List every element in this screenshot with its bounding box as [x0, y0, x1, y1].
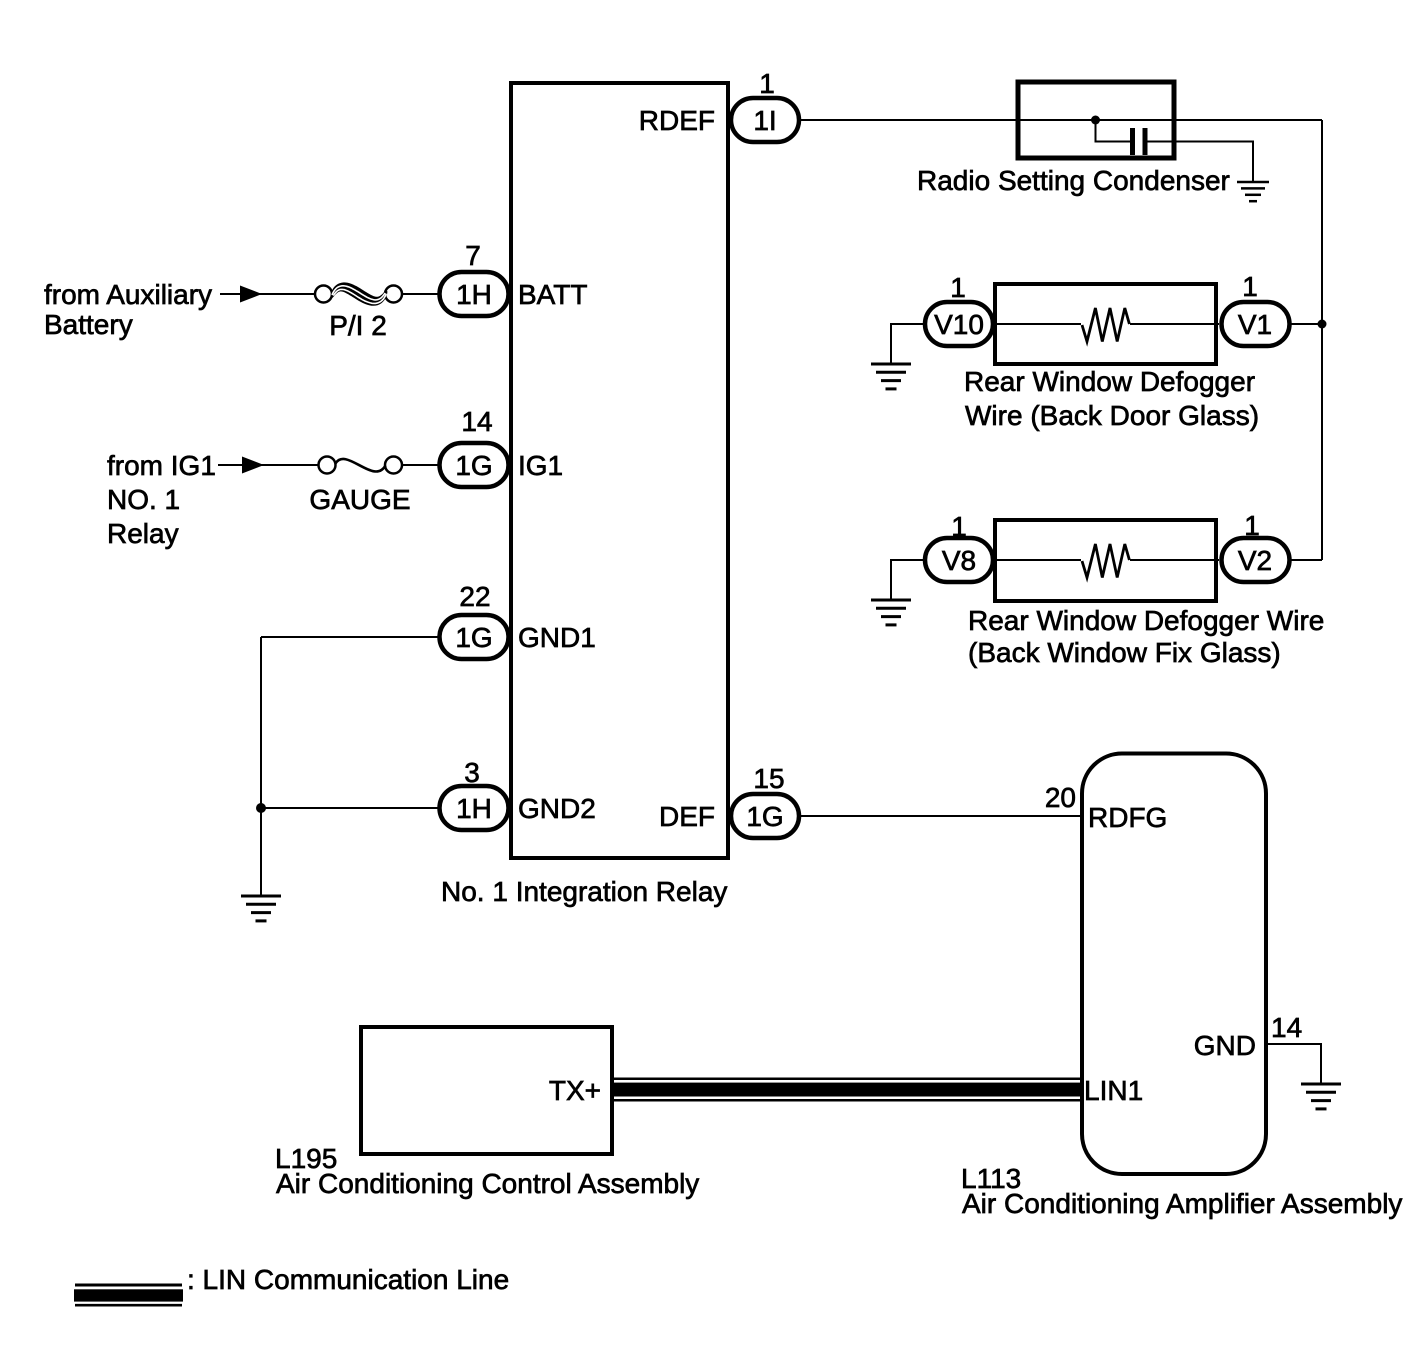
- svg-text:V2: V2: [1238, 545, 1272, 576]
- svg-text:1H: 1H: [456, 279, 492, 310]
- amplifier U2 box (A/C Amplifier Assembly): [1082, 754, 1266, 1175]
- svg-text:22: 22: [459, 581, 490, 612]
- svg-text:Battery: Battery: [44, 309, 133, 340]
- arrow BATT feed: [240, 286, 262, 303]
- connector 1H (BATT): [440, 272, 509, 316]
- svg-text:1: 1: [950, 272, 966, 303]
- svg-text:TX+: TX+: [549, 1075, 601, 1106]
- svg-text:BATT: BATT: [518, 279, 587, 310]
- defogger wire 1 box: [995, 284, 1216, 364]
- capacitor C1 plates: [1130, 128, 1135, 155]
- connector V10: [925, 302, 993, 346]
- connector 1G (GND1): [440, 615, 509, 659]
- svg-text:1I: 1I: [753, 105, 776, 136]
- svg-text:from IG1: from IG1: [107, 450, 216, 481]
- ground G2 (condenser): [1237, 182, 1269, 201]
- svg-text:14: 14: [1271, 1012, 1302, 1043]
- svg-text:NO. 1: NO. 1: [107, 484, 180, 515]
- wire capacitor to ground: [1148, 142, 1254, 182]
- ground G1: [241, 896, 281, 921]
- legend LIN symbol: [74, 1285, 183, 1305]
- junction GND2: [256, 803, 266, 813]
- svg-text:GND: GND: [1194, 1030, 1256, 1061]
- wire DEF to amplifier: [801, 815, 1082, 817]
- svg-text:3: 3: [464, 757, 480, 788]
- svg-text:Rear Window Defogger: Rear Window Defogger: [964, 366, 1255, 397]
- wire V1 to bus: [1292, 323, 1323, 325]
- svg-text:IG1: IG1: [518, 450, 563, 481]
- svg-text:Wire (Back Door Glass): Wire (Back Door Glass): [965, 400, 1259, 431]
- connector V2: [1222, 538, 1290, 582]
- svg-text:: LIN Communication Line: : LIN Communication Line: [187, 1264, 509, 1295]
- svg-text:1G: 1G: [455, 622, 492, 653]
- relay U1 No.1 Integration Relay box: [511, 83, 728, 858]
- svg-text:1: 1: [759, 68, 775, 99]
- resistor R1 (defogger element): [1082, 308, 1129, 342]
- defogger wire 2 box: [995, 520, 1216, 601]
- junction in condenser: [1091, 116, 1100, 125]
- resistor R2 (defogger element): [1082, 544, 1129, 578]
- wire condenser tap: [1096, 120, 1131, 142]
- wire through defogger 1: [995, 323, 1081, 325]
- junction V1 bus: [1318, 320, 1327, 329]
- connector 1H (GND2): [440, 786, 509, 830]
- wire right bus vertical: [1321, 120, 1323, 560]
- control box U3 (A/C Control Assembly): [361, 1027, 612, 1154]
- arrow IG1 feed: [242, 457, 264, 474]
- svg-text:Radio Setting Condenser: Radio Setting Condenser: [917, 165, 1230, 196]
- svg-text:GND2: GND2: [518, 793, 596, 824]
- wire GND to ground: [1266, 1044, 1321, 1083]
- wire V2 to bus: [1292, 559, 1323, 561]
- wire GND2: [261, 807, 438, 809]
- svg-text:(Back Window Fix Glass): (Back Window Fix Glass): [968, 637, 1281, 668]
- svg-text:1G: 1G: [455, 450, 492, 481]
- wire GND1: [261, 636, 438, 638]
- svg-text:Rear Window Defogger Wire: Rear Window Defogger Wire: [968, 605, 1324, 636]
- svg-text:Relay: Relay: [107, 518, 179, 549]
- svg-text:DEF: DEF: [659, 801, 715, 832]
- connector 1G (DEF): [731, 794, 799, 838]
- svg-text:1H: 1H: [456, 793, 492, 824]
- fusible link P/I 2: [315, 282, 402, 341]
- wire fuse to 1H: [402, 293, 438, 295]
- wire V8 to ground: [891, 560, 923, 599]
- svg-text:V8: V8: [942, 545, 976, 576]
- svg-text:RDEF: RDEF: [639, 105, 715, 136]
- wire LIN communication line: [613, 1079, 1082, 1101]
- svg-text:1G: 1G: [746, 801, 783, 832]
- radio setting condenser box: [1018, 82, 1174, 158]
- svg-text:from Auxiliary: from Auxiliary: [44, 279, 212, 310]
- svg-text:20: 20: [1045, 782, 1076, 813]
- wire ground vertical: [260, 637, 262, 895]
- svg-text:V1: V1: [1238, 309, 1272, 340]
- svg-text:No. 1 Integration Relay: No. 1 Integration Relay: [441, 876, 727, 907]
- connector V8: [925, 538, 993, 582]
- ground G4: [871, 600, 911, 625]
- svg-text:7: 7: [465, 240, 481, 271]
- fuse GAUGE: [309, 457, 410, 516]
- svg-text:15: 15: [753, 763, 784, 794]
- svg-text:14: 14: [461, 406, 492, 437]
- wire V10 to ground: [891, 324, 923, 363]
- connector 1I (RDEF): [731, 98, 799, 142]
- svg-text:GAUGE: GAUGE: [309, 484, 410, 515]
- wire RDEF to condenser and right bus: [801, 119, 1322, 121]
- ground G5: [1301, 1084, 1341, 1109]
- svg-text:Air Conditioning Control Assem: Air Conditioning Control Assembly: [276, 1168, 699, 1199]
- svg-text:LIN1: LIN1: [1084, 1075, 1143, 1106]
- ground G3: [871, 364, 911, 389]
- svg-text:Air Conditioning Amplifier Ass: Air Conditioning Amplifier Assembly: [962, 1188, 1402, 1219]
- svg-text:P/I 2: P/I 2: [329, 310, 387, 341]
- wire through defogger 2: [995, 559, 1081, 561]
- svg-text:GND1: GND1: [518, 622, 596, 653]
- wire IG1 lead left: [218, 464, 319, 466]
- svg-text:RDFG: RDFG: [1088, 802, 1167, 833]
- wire fuse to 1G: [402, 464, 438, 466]
- connector V1: [1222, 302, 1290, 346]
- svg-text:V10: V10: [934, 309, 984, 340]
- wire BATT lead left: [220, 293, 315, 295]
- svg-text:1: 1: [1242, 271, 1258, 302]
- connector 1G (IG1): [440, 443, 509, 487]
